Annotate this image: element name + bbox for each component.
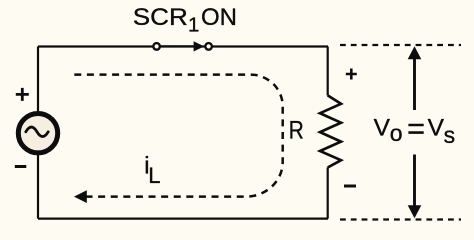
svg-text:V: V bbox=[374, 114, 391, 141]
svg-text:ON: ON bbox=[201, 4, 237, 31]
sine wave bbox=[26, 127, 48, 137]
Vo arrowhead down bbox=[408, 205, 422, 218]
current loop arrowhead bbox=[74, 190, 87, 203]
svg-text:s: s bbox=[444, 122, 456, 148]
wire top bbox=[38, 45, 328, 47]
Vo arrow shaft upper bbox=[413, 57, 416, 110]
svg-text:SCR: SCR bbox=[133, 4, 188, 31]
switch SCR1 terminal left bbox=[153, 43, 160, 50]
plus source bbox=[16, 88, 29, 101]
label equals bbox=[408, 125, 423, 133]
wire right lower bbox=[327, 167, 329, 218]
resistor R bbox=[320, 95, 341, 167]
minus source bbox=[15, 165, 26, 168]
dashed node line top bbox=[340, 44, 461, 46]
wire bottom bbox=[38, 218, 328, 220]
minus resistor bbox=[344, 185, 356, 188]
Vo arrow shaft lower bbox=[413, 155, 416, 208]
svg-text:L: L bbox=[148, 163, 160, 188]
switch SCR1 terminal right bbox=[205, 43, 212, 50]
ac source VS bbox=[18, 114, 57, 153]
current loop iL dashed path bbox=[74, 75, 282, 197]
svg-text:V: V bbox=[428, 114, 445, 141]
wire right upper bbox=[327, 47, 329, 96]
switch arm wire bbox=[161, 45, 196, 47]
switch arrowhead bbox=[194, 41, 205, 51]
wire left bbox=[37, 47, 39, 219]
svg-text:o: o bbox=[390, 120, 403, 146]
Vo arrowhead up bbox=[408, 46, 422, 59]
plus resistor bbox=[346, 69, 357, 80]
svg-text:1: 1 bbox=[188, 13, 199, 36]
dashed node line bottom bbox=[340, 218, 461, 220]
svg-text:R: R bbox=[289, 116, 304, 144]
